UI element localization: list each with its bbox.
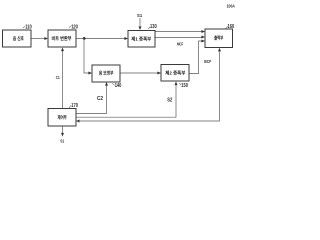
svg-text:출력부: 출력부: [214, 34, 224, 41]
svg-text:음 신호: 음 신호: [13, 35, 25, 42]
wire W1: box110 to box120: [31, 38, 45, 40]
box 160 output unit: [205, 29, 233, 48]
svg-text:음 보정부: 음 보정부: [99, 70, 114, 77]
svg-text:제어부: 제어부: [58, 114, 68, 121]
svg-text:110: 110: [25, 24, 32, 30]
box 170 controller: [48, 109, 76, 127]
wire W7: box150 output up to box160 lower input: [189, 41, 202, 74]
arrowhead into box160 lower input: [201, 40, 205, 43]
svg-text:C2: C2: [97, 96, 103, 102]
svg-text:제1 증폭부: 제1 증폭부: [131, 35, 152, 42]
box 150 second amplifier: [161, 65, 189, 82]
wire W5: box130 upper output to box160: [155, 31, 202, 33]
label 160: [226, 26, 228, 28]
arrowhead into box140: [88, 72, 92, 75]
label 140: [112, 83, 114, 85]
label 130: [148, 27, 150, 29]
svg-text:130: 130: [150, 24, 157, 30]
arrowhead up into box150 bottom: [175, 82, 178, 86]
svg-text:150: 150: [181, 83, 188, 89]
arrowhead down into box130 top: [139, 26, 142, 30]
arrowhead left into box170 right: [76, 120, 80, 123]
arrowhead into box150: [157, 72, 161, 75]
svg-text:MCF: MCF: [177, 42, 184, 47]
arrowhead up into box120 bottom: [61, 48, 64, 52]
arrowhead into box130: [124, 37, 128, 40]
wire W11: box170 right to box150 bottom: [76, 85, 176, 117]
arrowhead into box120: [44, 37, 48, 40]
box 130 first amplifier: [128, 31, 155, 48]
svg-text:140: 140: [115, 83, 122, 89]
svg-text:S2: S2: [167, 97, 172, 103]
label 120: [69, 26, 71, 28]
arrowhead into box160 middle input: [201, 36, 205, 39]
wire W10: box170 right to box140 bottom: [76, 86, 107, 114]
svg-text:120: 120: [71, 24, 78, 30]
arrowhead down below box170: [61, 133, 64, 137]
svg-text:100A: 100A: [227, 4, 236, 10]
svg-text:제2 증폭부: 제2 증폭부: [165, 70, 186, 77]
wire W8: S1 arrow into box130 top: [139, 18, 141, 26]
box 110 sound signal: [3, 30, 32, 47]
wire W3: junction down then right to box140: [84, 39, 89, 74]
label 170: [69, 105, 71, 108]
svg-text:S1: S1: [60, 138, 65, 143]
wire W13: box170 bottom output S1: [62, 126, 64, 133]
wire W12: box170 top to box120 bottom (C1): [62, 51, 64, 109]
arrowhead into box160 upper input: [201, 30, 205, 33]
svg-text:C1: C1: [56, 75, 60, 80]
svg-text:160: 160: [228, 24, 235, 30]
wire W9: BCF line box160 bottom to box170 right: [80, 52, 220, 122]
label 110: [23, 26, 25, 28]
wire W6: box130 lower output to box160 (MCF): [155, 37, 202, 39]
box 120 bit converter: [48, 30, 76, 47]
wire W4: box140 to box150: [120, 72, 158, 74]
svg-text:170: 170: [71, 103, 78, 109]
svg-text:S1: S1: [137, 13, 143, 18]
wire W2: box120 to box130: [76, 38, 125, 40]
svg-text:BCF: BCF: [204, 59, 211, 64]
arrowhead up into box160 bottom: [218, 48, 221, 52]
box 140 sound correction unit: [92, 65, 120, 82]
arrowhead up into box140 bottom: [105, 82, 108, 86]
svg-text:비트 변환부: 비트 변환부: [52, 35, 73, 42]
label 150: [179, 83, 181, 85]
junction dot: [83, 37, 86, 40]
